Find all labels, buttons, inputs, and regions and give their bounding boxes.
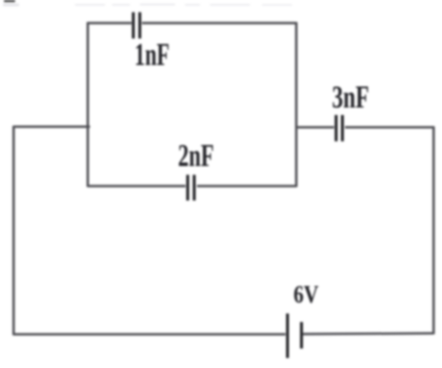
svg-text:3nF: 3nF [332,79,369,115]
svg-text:6V: 6V [294,282,319,309]
svg-text:2nF: 2nF [178,137,214,173]
svg-text:1nF: 1nF [135,36,170,72]
